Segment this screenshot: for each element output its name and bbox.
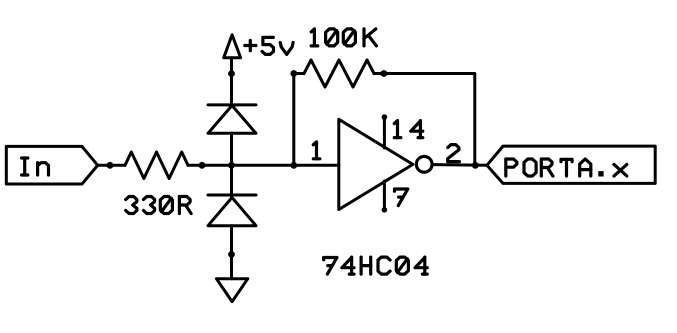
junction dot feedback tap [290,162,297,169]
junction dot 100K right [381,70,388,77]
junction dot node column [228,162,235,169]
wire D2 to ground [230,226,233,279]
diode D2 clamp to ground [208,195,256,226]
wire node up to D1 [230,133,233,165]
junction dot output [472,162,479,169]
wire feedback top and riser right [374,74,475,166]
junction dot +5v pin [228,70,235,77]
pin 2 label [448,145,460,162]
junction dot 100K left [290,70,297,77]
wire node down to D2 [230,165,233,197]
wire D1 to +5v [230,58,233,105]
pin 7 dot [382,207,388,213]
pin 1 label [313,142,320,159]
wire input to R330 [98,164,125,167]
wire feedback riser left [294,74,304,166]
pin 14 dot [382,114,388,120]
pin 7 label [395,189,408,206]
junction dot input [107,162,114,169]
input tag In [6,146,97,184]
pin 14 label [394,121,423,138]
inverter output bubble [416,156,432,172]
junction dot after R330 [199,162,206,169]
resistor R 100K [304,60,374,87]
+5v supply symbol [224,35,241,58]
label +5v [245,37,293,54]
label 100K [311,29,376,46]
wire gate output to tag [434,163,487,167]
junction dot ground pin [228,251,235,258]
inverter U1 triangle [339,119,413,209]
label 74HC04 [324,257,428,274]
label 330R [126,197,191,214]
label In [22,158,49,175]
wire R330 to gate input [188,164,339,167]
pin 7 stub [383,181,386,210]
ground symbol [216,279,247,302]
output tag PORTA.x [487,146,655,183]
label PORTA.x [506,159,627,177]
resistor R 330R [125,152,188,179]
pin 14 stub [383,117,386,148]
diode D1 clamp to +5v [208,105,256,133]
